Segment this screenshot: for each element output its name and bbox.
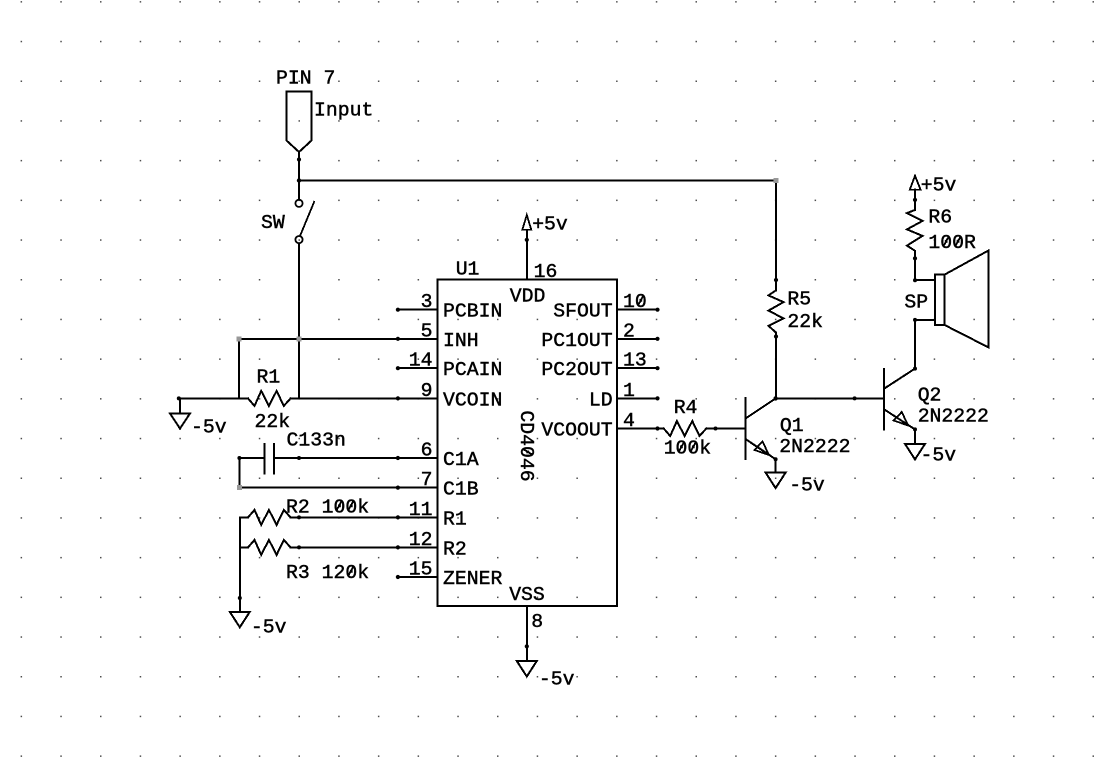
resistor R5 22k [769, 181, 824, 399]
wire Q1 emitter to ground [774, 457, 778, 472]
svg-text:2N2222: 2N2222 [779, 436, 850, 458]
pin 1 LD [589, 380, 660, 412]
svg-text:SW: SW [261, 212, 285, 234]
pin 2 PC1OUT [541, 320, 659, 352]
svg-text:VSS: VSS [509, 584, 545, 606]
node gray handle INH left [236, 336, 241, 341]
svg-text:12: 12 [409, 529, 433, 551]
svg-text:VCOIN: VCOIN [443, 389, 502, 411]
svg-text:-5v: -5v [191, 417, 227, 439]
svg-text:PC1OUT: PC1OUT [541, 330, 612, 352]
svg-text:Input: Input [314, 100, 373, 122]
wire down to switch [298, 181, 300, 200]
svg-text:100k: 100k [664, 438, 711, 460]
wire R1 to VCOIN pin [291, 397, 438, 399]
svg-text:CD4046: CD4046 [515, 410, 537, 481]
wire C1 left to C1B net [238, 458, 240, 488]
node Q1 collector junction [773, 396, 777, 400]
svg-text:-5v: -5v [789, 475, 825, 497]
svg-text:-5v: -5v [251, 617, 287, 639]
svg-text:10: 10 [623, 291, 647, 313]
svg-text:14: 14 [409, 350, 433, 372]
svg-text:R2: R2 [443, 538, 467, 560]
pin 14 PCAIN [396, 350, 503, 382]
ground -5v at Q2 [905, 444, 956, 467]
svg-text:PIN 7: PIN 7 [276, 68, 335, 90]
wire Q1 collector to Q2 base [776, 396, 885, 400]
svg-text:2N2222: 2N2222 [918, 406, 989, 428]
pin 11 R1 [396, 499, 467, 531]
svg-text:VCOOUT: VCOOUT [541, 420, 612, 442]
connector PIN 7 [276, 68, 373, 162]
capacitor C1 33n [237, 430, 345, 474]
svg-text:2: 2 [623, 320, 635, 342]
ground -5v at R1 [170, 396, 227, 438]
svg-text:Q1: Q1 [780, 415, 804, 437]
pin 6 C1A [396, 440, 479, 472]
pin 9 VCOIN [396, 380, 503, 412]
svg-text:22k: 22k [255, 411, 291, 433]
svg-text:INH: INH [443, 330, 479, 352]
svg-text:R4: R4 [674, 397, 698, 419]
svg-text:8: 8 [531, 611, 543, 633]
svg-text:PCAIN: PCAIN [443, 359, 502, 381]
pin 16 VDD stub [525, 238, 558, 283]
node gray handle INH switch crossing [297, 336, 302, 341]
pin 7 C1B [396, 469, 479, 501]
wire R1 net left [179, 397, 248, 399]
svg-text:4: 4 [623, 410, 635, 432]
svg-text:R2 100k: R2 100k [286, 497, 369, 519]
svg-text:R1: R1 [443, 508, 467, 530]
svg-text:15: 15 [409, 559, 433, 581]
svg-text:9: 9 [421, 380, 433, 402]
svg-text:R3 120k: R3 120k [286, 562, 369, 584]
resistor R3 120k [240, 540, 369, 584]
wire Q2 emitter to ground [913, 427, 917, 444]
wire R2 R3 ground link [238, 517, 242, 611]
resistor R1 [248, 367, 291, 434]
transistor Q2 2N2222 [884, 369, 989, 430]
svg-text:PC2OUT: PC2OUT [541, 359, 612, 381]
svg-text:C133n: C133n [287, 430, 346, 452]
resistor R6 100R [907, 207, 976, 281]
svg-text:5: 5 [421, 320, 433, 342]
svg-text:C1B: C1B [443, 479, 479, 501]
svg-text:3: 3 [421, 291, 433, 313]
wire INH net [239, 338, 438, 340]
pin 8 VSS stub [525, 606, 543, 649]
wire top rail to R5 [299, 180, 776, 182]
node gray handle top rail corner [774, 178, 779, 183]
wire C1A net [299, 457, 438, 459]
switch SW [261, 200, 315, 244]
resistor R4 100k [658, 397, 718, 460]
wire Q2 collector to speaker [913, 320, 917, 371]
wire switch to VCOIN net [298, 243, 300, 398]
svg-text:R6: R6 [928, 207, 952, 229]
svg-text:6: 6 [421, 440, 433, 462]
pin 4 VCOOUT [541, 410, 659, 442]
node junction at top rail [297, 178, 301, 182]
svg-text:R1: R1 [257, 367, 281, 389]
svg-text:1: 1 [623, 380, 635, 402]
svg-text:LD: LD [589, 389, 613, 411]
svg-text:SP: SP [904, 292, 928, 314]
op IC U1 CD4046 body [438, 259, 618, 607]
pin 15 ZENER [396, 559, 503, 591]
wire connector to top rail [298, 152, 300, 181]
resistor R2 100k [240, 497, 369, 525]
wire C1B net [239, 487, 437, 489]
wire R2 to pin 11 [291, 515, 438, 519]
pin 3 PCBIN [396, 291, 503, 323]
svg-text:-5v: -5v [539, 669, 575, 691]
svg-text:VDD: VDD [510, 286, 546, 308]
power +5v at R6 [910, 175, 957, 210]
svg-text:16: 16 [534, 261, 558, 283]
pin 10 SFOUT [553, 291, 659, 323]
svg-text:+5v: +5v [921, 175, 957, 197]
svg-text:-5v: -5v [921, 445, 957, 467]
ground -5v at pin 8 [517, 646, 575, 690]
speaker SP [904, 251, 988, 348]
svg-text:R5: R5 [787, 289, 811, 311]
svg-text:100R: 100R [928, 232, 976, 254]
pin 13 PC2OUT [541, 350, 659, 382]
svg-text:SFOUT: SFOUT [553, 301, 612, 323]
node gray handle C1B corner [237, 485, 242, 490]
svg-text:22k: 22k [787, 311, 823, 333]
ground -5v at R2 R3 [230, 612, 287, 639]
pin 12 R2 [396, 529, 467, 561]
svg-text:+5v: +5v [532, 214, 568, 236]
transistor Q1 2N2222 [746, 398, 851, 459]
svg-text:ZENER: ZENER [443, 568, 502, 590]
svg-text:C1A: C1A [443, 449, 479, 471]
wire R4 to Q1 base [706, 428, 745, 430]
value slashed zeros overlay [336, 236, 961, 576]
svg-text:Q2: Q2 [918, 385, 942, 407]
svg-text:PCBIN: PCBIN [443, 301, 502, 323]
ground -5v at Q1 [766, 473, 825, 497]
svg-text:13: 13 [623, 350, 647, 372]
pin 5 INH [396, 320, 479, 352]
power +5v at pin 16 [522, 214, 568, 240]
svg-text:U1: U1 [456, 259, 480, 281]
svg-text:11: 11 [409, 499, 433, 521]
wire INH to R1 net [238, 339, 240, 399]
wire R3 to pin 12 [291, 545, 438, 549]
svg-text:7: 7 [421, 469, 433, 491]
